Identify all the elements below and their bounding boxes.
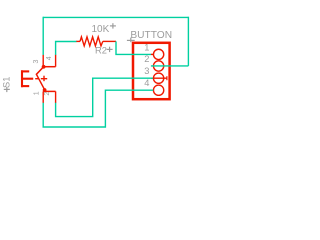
pin 4 bbox=[55, 55, 57, 67]
wire top horizontal bbox=[43, 16, 188, 18]
actuator plate (E shape) bbox=[21, 70, 33, 87]
R2 origin cross bbox=[107, 47, 113, 52]
wire left vertical to pin3 bbox=[42, 17, 44, 55]
svg-text:4: 4 bbox=[46, 56, 53, 60]
pin 1 bbox=[42, 91, 44, 103]
wire switch pin2 to connector pin3 bbox=[56, 78, 153, 116]
10K origin cross bbox=[110, 23, 116, 28]
wire switch pin1 to connector pin4 bbox=[43, 90, 153, 127]
bottom contact dot bbox=[43, 88, 47, 92]
svg-text:1: 1 bbox=[144, 42, 149, 52]
svg-text:3: 3 bbox=[33, 60, 40, 64]
wire to connector pin2 bbox=[151, 65, 189, 67]
wire right vertical bbox=[187, 17, 189, 66]
svg-text:2: 2 bbox=[144, 54, 149, 64]
switch S1 bbox=[21, 55, 56, 103]
box bbox=[133, 43, 170, 99]
BUTTON origin cross bbox=[127, 38, 135, 43]
svg-text:3: 3 bbox=[144, 66, 149, 76]
svg-text:10K: 10K bbox=[92, 24, 110, 35]
pin 3 bbox=[42, 55, 44, 67]
lever bbox=[36, 67, 44, 90]
pin 3 circle bbox=[151, 77, 167, 79]
pin 2 circle bbox=[153, 61, 163, 71]
resistor R2 bbox=[76, 37, 116, 46]
top contact bar bbox=[43, 66, 55, 68]
svg-text:S1: S1 bbox=[1, 77, 11, 88]
pin 4 circle bbox=[153, 85, 163, 95]
S1 origin cross (grey) bbox=[4, 87, 10, 92]
svg-text:2: 2 bbox=[44, 92, 51, 96]
S1 origin cross (red) bbox=[41, 78, 47, 80]
wire resistor left to switch pin4 bbox=[56, 42, 77, 55]
pin 2 bbox=[55, 91, 57, 103]
svg-text:1: 1 bbox=[34, 91, 41, 95]
connector J1 BUTTON bbox=[133, 43, 170, 99]
wire resistor right to connector pin1 bbox=[116, 41, 151, 54]
wires (net) bbox=[43, 17, 188, 127]
svg-text:4: 4 bbox=[144, 78, 149, 88]
svg-text:BUTTON: BUTTON bbox=[130, 30, 172, 41]
bottom contact bar bbox=[43, 90, 55, 92]
top contact dot bbox=[42, 65, 46, 69]
svg-text:R2: R2 bbox=[95, 46, 107, 56]
pin 1 circle bbox=[151, 53, 154, 55]
actuator dashed link bbox=[35, 78, 39, 80]
